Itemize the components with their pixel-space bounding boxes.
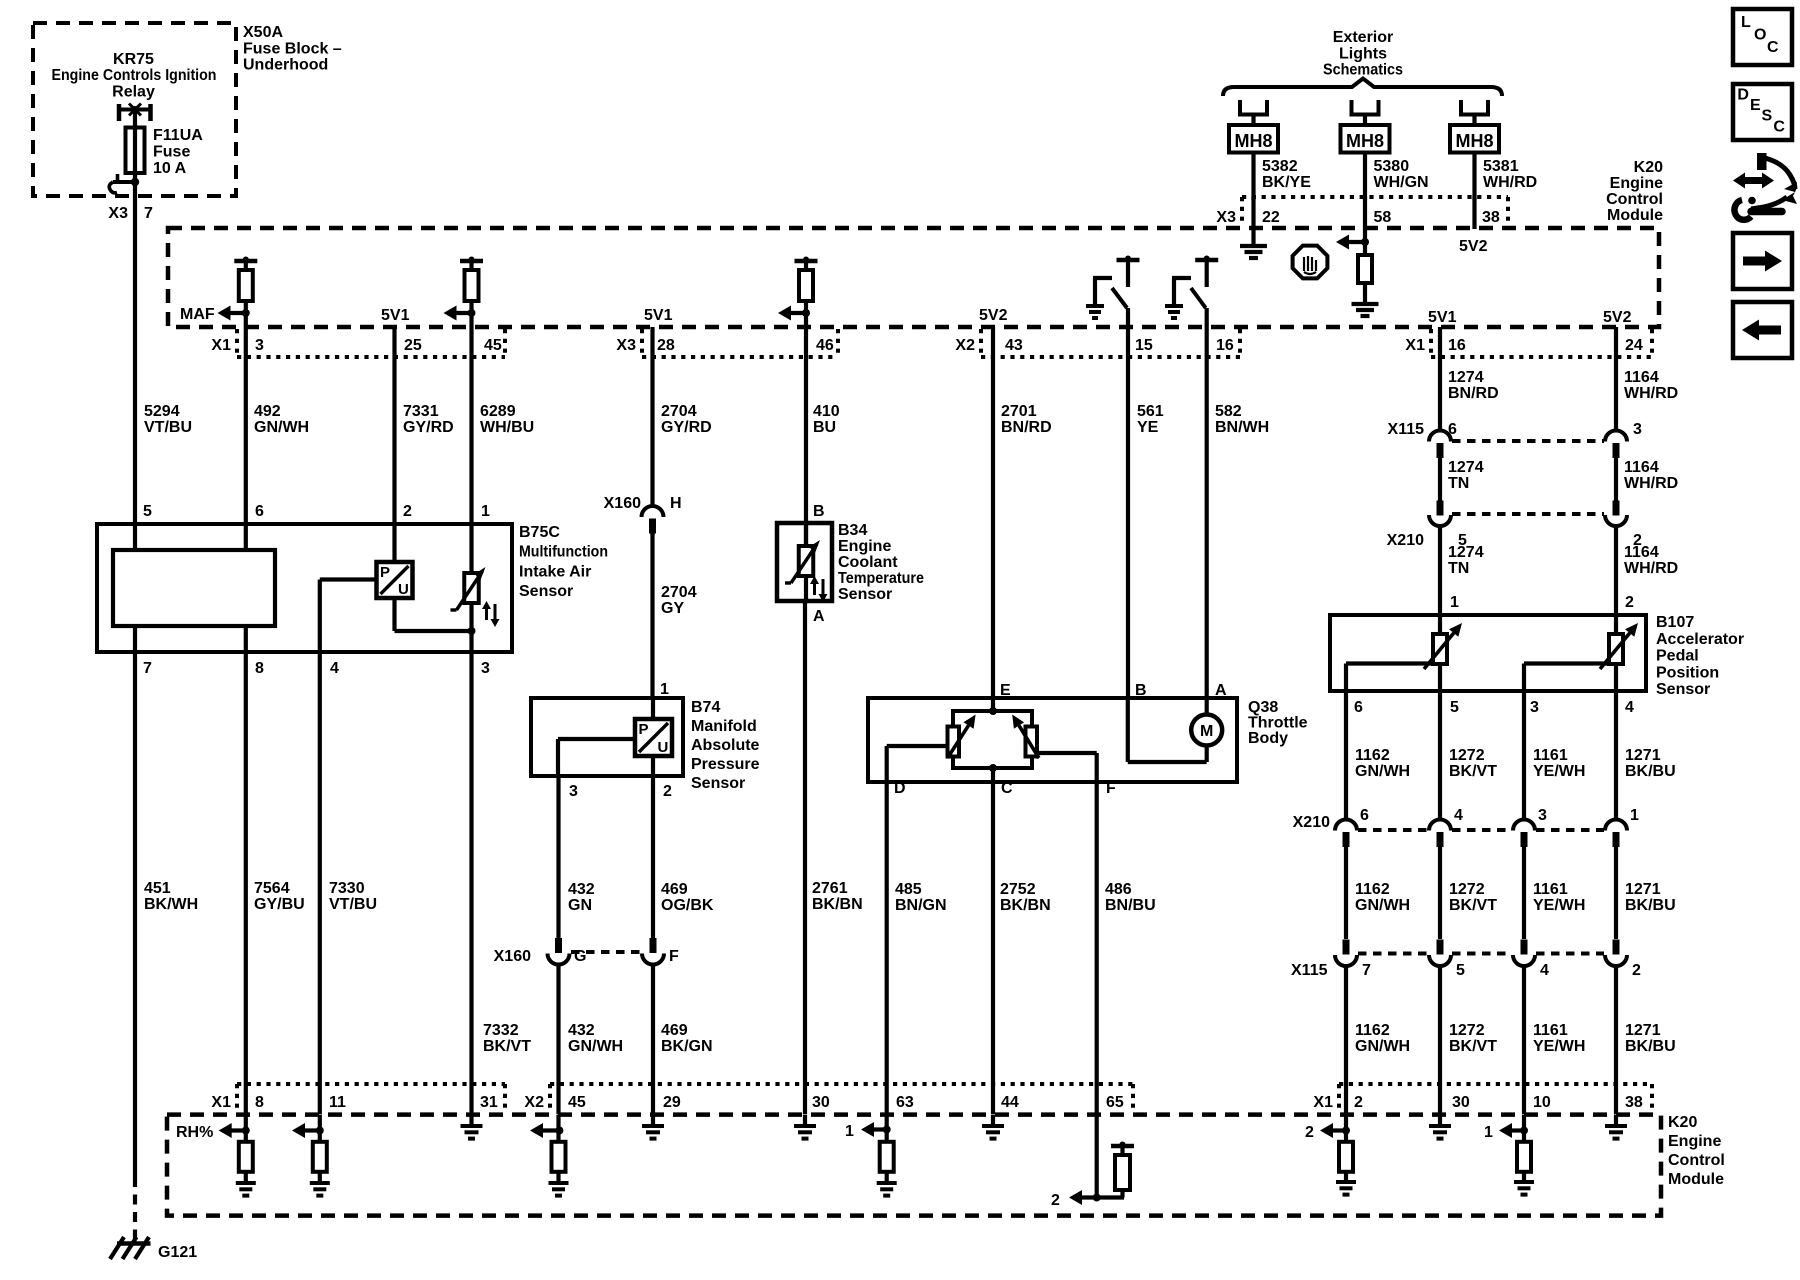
throttle position sensor track in Q38 [953,698,1032,772]
svg-text:BK/GN: BK/GN [661,1038,713,1055]
svg-text:KR75: KR75 [113,51,154,68]
svg-text:D: D [894,780,906,797]
svg-text:Module: Module [1668,1171,1724,1188]
svg-text:2: 2 [1305,1124,1314,1141]
pin 22 label [1262,209,1280,226]
svg-text:GN/WH: GN/WH [1355,1038,1410,1055]
pin 30 label bottom right [1452,1094,1470,1111]
label net 2 at pin 2 [1305,1124,1314,1141]
label wire 1162 GN/WH middle [1355,881,1410,914]
pin 2 label B107 [1625,594,1634,611]
svg-text:5V2: 5V2 [1459,238,1488,255]
connector row X3 top dotted outline [642,329,838,357]
pin 44 label bottom [1001,1094,1019,1111]
svg-text:65: 65 [1106,1094,1124,1111]
pin label X3 7 below relay box [108,205,153,222]
pin 38 label [1482,209,1500,226]
pin 5 label B75C [143,503,152,520]
svg-text:2704: 2704 [661,584,697,601]
wire 1271 from B107 to X210 row [1614,691,1618,820]
svg-text:7: 7 [144,205,153,222]
svg-text:5V1: 5V1 [381,307,410,324]
svg-text:GY: GY [661,600,684,617]
thermistor in B34 [785,523,820,601]
svg-text:Control: Control [1606,191,1663,208]
label X160 H [604,495,682,512]
sensor B34 box [777,523,832,601]
label K20 engine control module bottom right [1668,1114,1725,1188]
svg-text:Q38: Q38 [1248,699,1278,716]
label X160 lower row [494,948,531,965]
svg-text:BK/VT: BK/VT [1449,897,1497,914]
svg-text:469: 469 [661,881,688,898]
svg-text:6: 6 [1360,807,1369,824]
pin 6 label B75C [255,503,264,520]
ground below pin 63 resistor [877,1183,897,1196]
svg-text:7330: 7330 [329,880,365,897]
wire 1271 X115 to ECM segment [1614,966,1618,1114]
svg-text:1164: 1164 [1624,544,1659,561]
svg-text:486: 486 [1105,881,1132,898]
label 5V2 net at pin 24 [1603,309,1632,326]
node arrow 2 at pin 2 [1320,1123,1350,1138]
svg-text:K20: K20 [1634,159,1663,176]
label 5V2 net at pin 38 [1459,238,1488,255]
ground at ECM pin 30 right [1429,1115,1451,1139]
pin 2 label X210 [1633,532,1642,549]
svg-text:D: D [1737,87,1749,104]
relay KR75 contact symbol [117,104,153,122]
svg-text:BK/BU: BK/BU [1625,1038,1676,1055]
svg-text:3: 3 [1538,807,1547,824]
pin 63 label bottom [896,1094,914,1111]
wire 410 from ECM pin 46 to B34 pin B [804,301,808,546]
svg-text:6: 6 [1448,421,1457,438]
connector X160 lower dashed link [571,950,641,954]
svg-text:BN/RD: BN/RD [1448,385,1499,402]
svg-text:BK/BU: BK/BU [1625,897,1676,914]
svg-text:BK/YE: BK/YE [1262,174,1311,191]
pin 15 label [1135,337,1153,354]
connector row X2 bottom dotted outline [550,1084,1133,1113]
connector X115 upper dashed link [1452,439,1604,443]
svg-text:6: 6 [1354,699,1363,716]
svg-text:B107: B107 [1656,614,1694,631]
svg-text:BN/GN: BN/GN [895,897,947,914]
label X2 connector bottom [524,1094,544,1111]
pin A label B34 [813,608,825,625]
svg-text:1272: 1272 [1449,881,1485,898]
pin 3 label B107 [1530,699,1539,716]
wire Q38 pin D [887,746,948,782]
wire 1272 X210 to X115 segment [1438,847,1442,939]
throttle body Q38 box [868,698,1237,782]
svg-text:YE: YE [1137,419,1159,436]
resistor on wire 58 to ground [1358,255,1372,304]
svg-text:5382: 5382 [1262,158,1298,175]
svg-text:O: O [1754,27,1766,44]
label X3 connector top [616,337,636,354]
left potentiometer B107 [1424,623,1462,669]
ECM K20 bottom dashed box [167,1115,1661,1216]
icon LOC box [1733,9,1792,65]
svg-text:Position: Position [1656,664,1719,681]
svg-text:1164: 1164 [1624,369,1659,386]
svg-text:1: 1 [845,1123,854,1140]
node MAF arrow [218,306,250,321]
wire 1161 from B107 to X210 row [1522,691,1526,820]
pin 1 label B107 [1450,594,1459,611]
svg-text:1: 1 [1484,1124,1493,1141]
throttle motor M in Q38 [1128,698,1222,762]
ground at ECM pin 29 [642,1115,664,1139]
label X115 upper row [1388,421,1425,438]
svg-text:B: B [813,503,825,520]
wire 1274 TN X115 to X210 [1438,457,1442,501]
connector X115 pin 6 inline [1429,431,1451,459]
svg-text:MH8: MH8 [1455,131,1493,151]
label net 1 at pin 63 [845,1123,854,1140]
connector X160 pin F inline [642,938,664,965]
pin 2 label B74 [663,783,672,800]
wire 1162 from B107 to X210 row [1344,691,1348,820]
pin G label X160 [574,948,586,965]
pin 1 label X210 lower [1630,807,1639,824]
label wire 1271 BK/BU middle [1625,881,1676,914]
svg-text:P: P [639,721,649,738]
svg-text:GN/WH: GN/WH [1355,763,1410,780]
svg-text:31: 31 [480,1094,498,1111]
svg-text:K20: K20 [1668,1114,1697,1131]
node arrow 1 at pin 10 [1499,1123,1528,1138]
svg-text:1162: 1162 [1355,747,1390,764]
pin 10 label bottom [1533,1094,1551,1111]
ground at ECM pin 30 [794,1115,816,1139]
svg-text:1: 1 [1630,807,1639,824]
svg-text:8: 8 [255,660,264,677]
wire 485 from Q38 pin D to ECM pin 63 [885,782,889,1131]
svg-text:RH%: RH% [176,1124,213,1141]
resistor to ground at pin 8 [239,1115,253,1183]
svg-text:3: 3 [569,783,578,800]
label X1 connector top-left [211,337,231,354]
pin 3 label X115 [1633,421,1642,438]
wire pin8 from element [244,626,248,652]
label wire 492 GN/WH [254,403,309,436]
thermistor in B75C [451,524,486,652]
wire 2701 from ECM pin 43 to Q38 pin E [991,327,995,698]
pin 45 label bottom [568,1094,586,1111]
label wire 582 BN/WH [1215,403,1269,436]
svg-text:1162: 1162 [1355,881,1390,898]
wire Q38 pin F [1037,753,1097,782]
svg-text:45: 45 [484,337,502,354]
svg-text:Lights: Lights [1339,45,1387,62]
svg-text:2701: 2701 [1001,403,1037,420]
connector X115 lower row cups [1335,940,1627,967]
ground below wire 58 resistor [1352,304,1379,316]
svg-text:BK/WH: BK/WH [144,896,198,913]
svg-text:38: 38 [1625,1094,1643,1111]
pin 58 label [1374,209,1392,226]
connector X210 pin 2 inline [1605,501,1627,527]
label RH% net [176,1124,213,1141]
svg-text:Relay: Relay [112,84,155,101]
sensor B107 box [1330,615,1646,691]
label wire 7332 BK/VT [483,1022,531,1055]
connector row X2 top dotted outline [981,329,1240,357]
svg-text:Pedal: Pedal [1656,648,1699,665]
connector X210 pin 5 inline [1429,501,1451,527]
sensor B75C box [97,524,512,652]
svg-text:28: 28 [657,337,675,354]
updown arrows B75C thermistor [482,601,500,627]
label wire 2701 BN/RD [1001,403,1052,436]
svg-text:6289: 6289 [480,403,516,420]
pin 45 label [484,337,502,354]
connector X210 upper dashed link [1452,512,1604,516]
svg-text:5V1: 5V1 [644,307,673,324]
pin 65 label bottom [1106,1094,1124,1111]
svg-text:MH8: MH8 [1346,131,1384,151]
svg-text:VT/BU: VT/BU [329,896,377,913]
label wire 432 GN/WH [568,1022,623,1055]
wire 1164 from ECM pin 24 to X115 [1614,327,1618,431]
svg-text:30: 30 [812,1094,830,1111]
right potentiometer Q38 [1012,715,1039,759]
pin 24 label [1625,337,1643,354]
pin 31 label bottom [480,1094,498,1111]
svg-text:X1: X1 [211,1094,231,1111]
svg-text:Engine Controls Ignition: Engine Controls Ignition [52,67,217,84]
wire 5380 from MH8 into ECM [1363,197,1367,255]
label Q38 throttle body [1248,699,1308,747]
node arrow 2 at pin 65 [1069,1190,1124,1205]
svg-text:B75C: B75C [519,524,560,541]
svg-text:Sensor: Sensor [1656,681,1710,698]
svg-text:2: 2 [403,503,412,520]
svg-text:24: 24 [1625,337,1643,354]
svg-text:Module: Module [1607,207,1663,224]
sensor B74 box [531,698,683,776]
wire 6289 from ECM pin 45 to B75C pin 1 [469,301,473,524]
pin 1 label B75C [481,503,490,520]
svg-text:3: 3 [255,337,264,354]
svg-text:451: 451 [144,880,171,897]
ground at ECM pin 31 [461,1115,483,1139]
svg-text:2: 2 [1625,594,1634,611]
svg-text:X1: X1 [1405,337,1425,354]
svg-text:15: 15 [1135,337,1153,354]
pin 29 label bottom [663,1094,681,1111]
wire B107 pin 3 path [1524,664,1609,692]
svg-text:Multifunction: Multifunction [519,544,608,561]
wire 1272 X115 to ECM segment [1438,966,1442,1114]
wire 2752 from Q38 pin C to ECM pin 44 [991,782,995,1114]
pin 7 label X115 lower [1362,962,1371,979]
wire B107 pin 5 path [1438,664,1442,691]
wire 5381 from MH8 to ECM 5V2 rail [1472,197,1476,229]
svg-text:3: 3 [1530,699,1539,716]
label wire 410 BU [813,403,840,436]
label wire 451 BK/WH [144,880,198,913]
connector X160 pin H inline [642,506,664,536]
ground below pin 2 resistor [1336,1182,1356,1195]
svg-text:485: 485 [895,881,922,898]
svg-text:B: B [1135,682,1147,699]
wire 5294 from relay to B75C pin 5 [133,182,137,524]
ECM K20 top dashed box [168,228,1659,327]
svg-text:Exterior: Exterior [1333,29,1393,46]
svg-text:C: C [1767,39,1779,56]
svg-text:5381: 5381 [1483,158,1519,175]
svg-text:BK/VT: BK/VT [1449,763,1497,780]
svg-text:582: 582 [1215,403,1242,420]
label 5V1 net at pin 28 [644,307,673,324]
resistor to ground at pin 63 [880,1130,894,1184]
svg-text:38: 38 [1482,209,1500,226]
svg-text:Underhood: Underhood [243,57,328,74]
switch to ground on wire 561 inside ECM [1086,256,1140,319]
svg-text:OG/BK: OG/BK [661,897,714,914]
svg-text:Intake Air: Intake Air [519,563,591,580]
fuse block X50A dashed enclosure [33,23,236,196]
svg-text:1: 1 [481,503,490,520]
label X1 connector bottom-left [211,1094,231,1111]
svg-text:X160: X160 [604,495,641,512]
svg-text:X3: X3 [108,205,128,222]
svg-text:5294: 5294 [144,403,180,420]
label wire 6289 WH/BU [480,403,534,436]
ground below pin 45 resistor [549,1183,569,1196]
lamp connector staple above MH8 3 [1459,100,1490,125]
pin A label Q38 [1215,682,1227,699]
resistor to ground at pin 10 [1517,1115,1531,1182]
svg-text:Body: Body [1248,730,1288,747]
pin 16 label right group [1448,337,1466,354]
resistor to ground at pin 45 [552,1115,566,1183]
pin 1 label B74 [660,681,669,698]
wire 1162 X210 to X115 segment [1344,847,1348,939]
svg-text:4: 4 [330,660,339,677]
svg-text:WH/RD: WH/RD [1483,174,1537,191]
pin 43 label [1005,337,1023,354]
svg-text:GY/BU: GY/BU [254,896,305,913]
svg-text:43: 43 [1005,337,1023,354]
node arrow on wire 58 [1336,235,1369,250]
svg-text:Engine: Engine [838,538,891,555]
svg-text:492: 492 [254,403,281,420]
svg-text:A: A [1215,682,1227,699]
pin E label Q38 [1000,682,1011,699]
svg-text:410: 410 [813,403,840,420]
B75C internal element box [113,550,275,626]
node arrow 1 at pin 63 [861,1122,891,1137]
svg-text:1164: 1164 [1624,459,1659,476]
svg-text:7564: 7564 [254,880,290,897]
svg-text:Pressure: Pressure [691,756,760,773]
svg-text:2: 2 [1632,962,1641,979]
svg-text:BK/BN: BK/BN [1000,897,1051,914]
label X115 lower row [1291,962,1328,979]
label 5V1 net at pin 16 [1428,309,1457,326]
pin 2 label X115 lower [1632,962,1641,979]
node arrow at pin 45 [530,1123,563,1138]
label B34 engine coolant temperature sensor [838,522,924,603]
wire 1162 X115 to ECM segment [1344,966,1348,1114]
label F11UA fuse value [153,127,203,177]
label 5V2 net at pin 43 [979,307,1008,324]
wire Q38 pin C [991,768,995,782]
svg-text:1271: 1271 [1625,881,1661,898]
connector row X1 bottom-left dotted outline [237,1084,505,1113]
svg-text:YE/WH: YE/WH [1533,763,1585,780]
svg-text:Control: Control [1668,1152,1725,1169]
svg-text:YE/WH: YE/WH [1533,897,1585,914]
node 5V1 arrow at pin 45 [444,306,476,321]
svg-text:2761: 2761 [812,880,848,897]
svg-text:5: 5 [1456,962,1465,979]
label wire 485 BN/GN [895,881,947,914]
svg-text:WH/RD: WH/RD [1624,385,1678,402]
pin 38 label bottom right [1625,1094,1643,1111]
label wire 5382 BK/YE [1262,158,1311,191]
pin 46 label [816,337,834,354]
connector row X1 top-right dotted outline [1431,329,1652,357]
pin 6 label X210 lower [1360,807,1369,824]
svg-text:BK/BU: BK/BU [1625,763,1676,780]
svg-text:BK/VT: BK/VT [483,1038,531,1055]
pin 8 label B75C [255,660,264,677]
svg-text:44: 44 [1001,1094,1019,1111]
svg-text:1272: 1272 [1449,747,1485,764]
label X1 connector top-right [1405,337,1425,354]
wire 7331 from ECM pin 25 to B75C pin 2 [392,327,396,524]
wire 1164 X210 to B107 pin 2 [1614,526,1618,634]
svg-text:C: C [1001,780,1013,797]
pressure transducer P/U in B74 [635,698,672,756]
label wire 2761 BK/BN [812,880,863,913]
pin F label Q38 [1106,780,1116,797]
svg-text:25: 25 [404,337,422,354]
ground at ECM pin 22 [1240,246,1267,258]
svg-text:GN/WH: GN/WH [254,419,309,436]
wire B74 pin 2 below P/U [651,756,655,776]
label X210 upper row [1387,532,1424,549]
label wire 2752 BK/BN [1000,881,1051,914]
right potentiometer B107 [1600,623,1638,669]
svg-text:WH/RD: WH/RD [1624,560,1678,577]
wire 469 BK/GN from X160 F to ECM pin 29 [651,965,655,1115]
svg-text:X210: X210 [1293,814,1330,831]
wire 561 from ECM pin 15 to Q38 pin B [1126,308,1130,698]
svg-text:2: 2 [1354,1094,1363,1111]
wire pin 4 horizontal into P/U [320,580,377,653]
svg-text:16: 16 [1216,337,1234,354]
label X3 connector top-right [1216,209,1236,226]
svg-text:3: 3 [481,660,490,677]
pin 3 label X210 lower [1538,807,1547,824]
wire 451 dashed continuation [133,1177,137,1242]
svg-text:G: G [574,948,586,965]
switch to ground on wire 582 inside ECM [1165,256,1218,319]
svg-text:7331: 7331 [403,403,439,420]
svg-text:1274: 1274 [1448,369,1484,386]
pin 3 label [255,337,264,354]
svg-text:2752: 2752 [1000,881,1036,898]
pin 25 label [404,337,422,354]
wire 486 from Q38 pin F to ECM pin 65 [1095,782,1099,1198]
